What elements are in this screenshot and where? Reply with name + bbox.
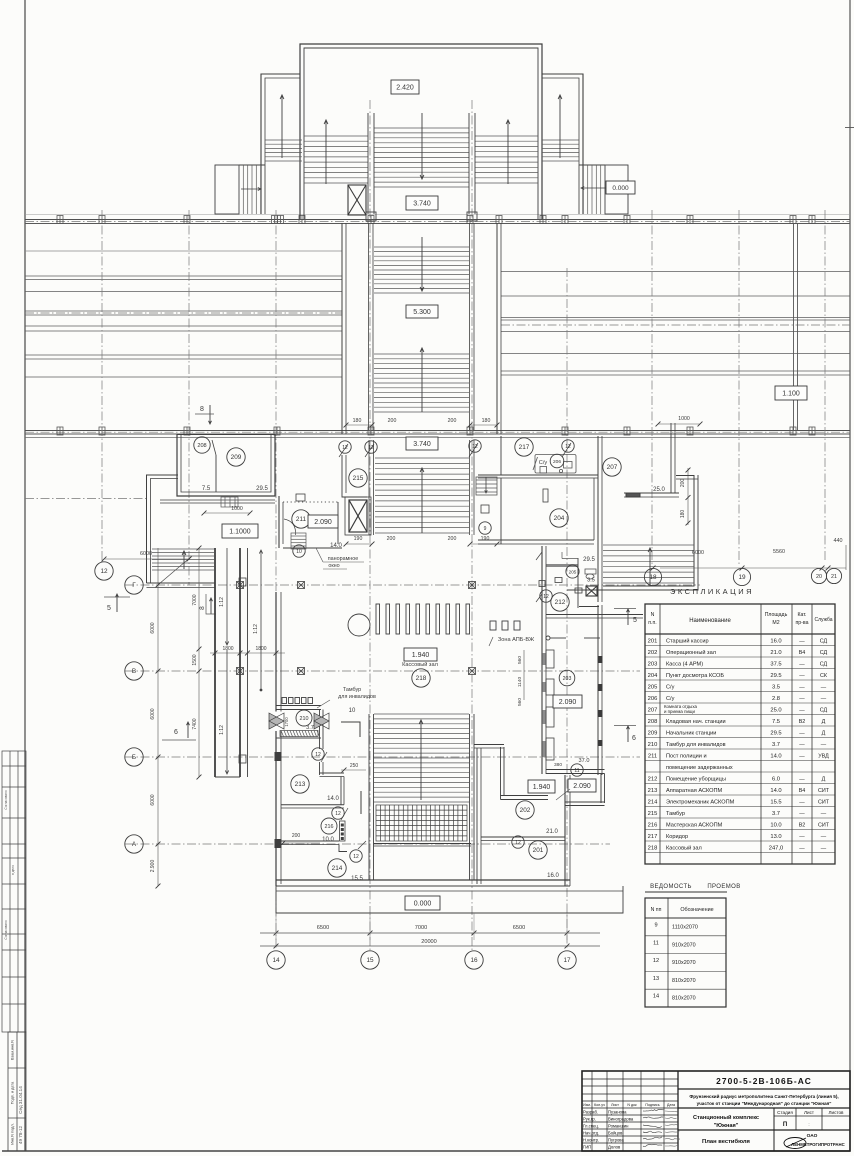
svg-text:Электромеханик АСКОПМ: Электромеханик АСКОПМ — [666, 800, 735, 806]
svg-text:3.5: 3.5 — [587, 578, 595, 584]
svg-text:6500: 6500 — [317, 925, 329, 931]
svg-text:2.090: 2.090 — [314, 519, 332, 526]
ramp center arrows down — [225, 548, 228, 645]
right wing stair — [542, 140, 579, 161]
svg-text:Кассовый зал: Кассовый зал — [666, 845, 702, 852]
svg-text:29.5: 29.5 — [583, 557, 595, 563]
svg-text:п.п.: п.п. — [648, 620, 657, 626]
svg-text:29.5: 29.5 — [256, 486, 268, 492]
escalator shaft inner rails — [369, 223, 475, 430]
svg-text:0.000: 0.000 — [612, 185, 629, 192]
svg-text:217: 217 — [648, 834, 658, 840]
svg-text:12: 12 — [100, 568, 108, 575]
svg-text:1.100: 1.100 — [782, 391, 800, 398]
svg-text:210: 210 — [648, 742, 658, 748]
svg-text:УВД: УВД — [818, 754, 829, 760]
svg-text:ОАО: ОАО — [807, 1133, 818, 1139]
door swing arc room 211 — [284, 519, 296, 535]
svg-text:6000: 6000 — [150, 794, 156, 805]
stage headers — [777, 1110, 844, 1128]
wall below 209 — [160, 500, 275, 503]
svg-text:180: 180 — [353, 418, 362, 424]
upper pavilion right wing wall — [542, 74, 583, 214]
svg-text:Н.контр.: Н.контр. — [583, 1138, 599, 1143]
svg-text:9: 9 — [654, 923, 657, 929]
axis circle 19 — [733, 568, 750, 585]
svg-text:5: 5 — [633, 617, 637, 624]
axis circle 17 — [558, 951, 576, 969]
svg-text:—: — — [821, 846, 827, 852]
svg-text:200: 200 — [292, 833, 301, 839]
label panoramic window — [316, 548, 364, 569]
level label 2.090 porch — [568, 779, 596, 792]
svg-text:Старший кассир: Старший кассир — [666, 638, 709, 645]
axis circle 20 — [811, 568, 826, 583]
svg-text:49 78-12: 49 78-12 — [18, 1125, 23, 1144]
svg-text:М2: М2 — [772, 620, 779, 626]
label С/у 206 — [539, 454, 564, 468]
svg-text:205: 205 — [569, 570, 577, 575]
svg-text:—: — — [821, 696, 827, 702]
vertical grid axis lines — [102, 100, 825, 950]
svg-text:8: 8 — [199, 606, 206, 610]
small stair room 211 — [291, 533, 306, 549]
svg-text:6: 6 — [632, 735, 636, 742]
room 215 tambour walls — [342, 455, 367, 497]
dimension 380 37.0 — [554, 758, 589, 768]
svg-text:37.5: 37.5 — [770, 662, 781, 668]
svg-text:—: — — [799, 834, 805, 840]
stair flight 5.300 down arrow — [420, 237, 424, 291]
svg-text:213: 213 — [648, 788, 658, 794]
svg-text:Тамбур: Тамбур — [666, 811, 685, 817]
svg-text:—: — — [799, 754, 805, 760]
svg-text:Аппаратная АСКОПМ: Аппаратная АСКОПМ — [666, 788, 723, 794]
svg-text:Романшин: Романшин — [608, 1124, 629, 1129]
level label 5.300 — [406, 305, 438, 318]
svg-text:201: 201 — [648, 639, 658, 645]
room tag 201 — [529, 841, 547, 859]
svg-text:204: 204 — [554, 515, 565, 522]
svg-text:190: 190 — [354, 536, 363, 542]
wc fixtures 205 206 — [533, 455, 576, 474]
room tag 213 — [291, 775, 309, 793]
axis circle В — [125, 662, 143, 680]
small stair right of shaft down — [476, 477, 497, 495]
signature squiggles — [643, 1109, 664, 1111]
svg-text:ЭКСПЛИКАЦИЯ: ЭКСПЛИКАЦИЯ — [670, 587, 754, 596]
svg-text:18: 18 — [649, 574, 657, 581]
svg-text:810x2070: 810x2070 — [672, 978, 696, 984]
svg-text:3.7: 3.7 — [772, 742, 780, 748]
left entrance stair treads — [239, 165, 265, 214]
svg-text:205: 205 — [648, 685, 658, 691]
svg-text:N пп: N пп — [651, 907, 662, 913]
sheet frame left border — [24, 0, 26, 1151]
section marker 5 right — [614, 609, 637, 626]
svg-text:Изм.: Изм. — [583, 1103, 591, 1107]
axis circle Г — [125, 576, 143, 594]
svg-text:А: А — [132, 841, 137, 848]
svg-text:440: 440 — [834, 538, 843, 544]
svg-text:1.940: 1.940 — [533, 784, 551, 791]
svg-text:—: — — [799, 662, 805, 668]
axis circle Б — [125, 748, 143, 766]
svg-text:Пузанова: Пузанова — [608, 1110, 627, 1115]
svg-text:21.0: 21.0 — [546, 829, 558, 835]
svg-text:Пункт досмотра КСОБ: Пункт досмотра КСОБ — [666, 673, 724, 679]
svg-text:Г: Г — [132, 582, 136, 589]
stamp handwriting — [18, 1086, 23, 1144]
entrance door fans — [269, 713, 329, 729]
svg-text:Д: Д — [822, 719, 826, 725]
svg-text:810x2070: 810x2070 — [672, 996, 696, 1002]
dimension 250 room 213 — [341, 763, 366, 772]
level label 1.1000 — [222, 524, 258, 538]
svg-text:204: 204 — [648, 673, 658, 679]
svg-text:3.740: 3.740 — [413, 201, 431, 208]
svg-text:380: 380 — [554, 762, 562, 768]
door tag 12 room 213 upper — [312, 748, 327, 762]
svg-text:Тамбур: Тамбур — [343, 687, 361, 693]
svg-text:6500: 6500 — [513, 925, 525, 931]
svg-text:10: 10 — [349, 708, 356, 714]
door opening gap in west wall — [274, 712, 283, 732]
svg-text:Фрунзенский радиус метрополите: Фрунзенский радиус метрополитена Санкт-П… — [689, 1093, 838, 1099]
svg-text:5.300: 5.300 — [413, 309, 431, 316]
door mat hatch — [276, 731, 321, 739]
svg-text:218: 218 — [416, 675, 427, 682]
svg-text:панорамное: панорамное — [328, 556, 359, 562]
wc 205 dimension 29.5 — [562, 552, 595, 563]
svg-text:Б: Б — [132, 754, 136, 761]
svg-text:Согласовано: Согласовано — [4, 790, 8, 809]
svg-text:Подп. и дата: Подп. и дата — [11, 1081, 15, 1104]
svg-text:13.0: 13.0 — [770, 834, 781, 840]
svg-text:для инвалидов: для инвалидов — [338, 694, 376, 700]
svg-text:В2: В2 — [799, 823, 806, 829]
svg-text:Кат.: Кат. — [797, 612, 806, 618]
corner bracket lower stair — [360, 791, 362, 814]
svg-text:"Южная": "Южная" — [714, 1123, 739, 1129]
svg-text:Согласовано: Согласовано — [4, 920, 8, 939]
right entrance stair treads — [579, 165, 605, 214]
svg-text:6000: 6000 — [150, 622, 156, 633]
small door squares near 212 — [539, 578, 582, 594]
room tag 212 — [551, 593, 569, 611]
svg-text:3.7: 3.7 — [306, 725, 314, 731]
room tag 217 — [515, 438, 533, 456]
svg-text:—: — — [799, 685, 805, 691]
svg-text:Виноградова: Виноградова — [608, 1117, 634, 1122]
level label 2.420 — [391, 80, 419, 94]
svg-text:ЛЕНМЕТРОГИПРОТРАНС: ЛЕНМЕТРОГИПРОТРАНС — [791, 1142, 844, 1147]
left wing stair — [265, 140, 302, 161]
svg-text:215: 215 — [648, 811, 658, 817]
door leader 11 — [556, 789, 570, 800]
svg-text:214: 214 — [648, 800, 658, 806]
svg-text:9: 9 — [484, 526, 487, 532]
svg-text:2.900: 2.900 — [150, 860, 156, 873]
svg-text:В4: В4 — [799, 650, 806, 656]
bottom dimension line — [260, 913, 600, 948]
svg-text:—: — — [799, 673, 805, 679]
svg-text:10.0: 10.0 — [322, 837, 334, 843]
level label 3.740 upper — [406, 196, 438, 210]
room tag 208 — [194, 437, 210, 453]
room tag 210 — [296, 710, 312, 726]
svg-text:Рук.гр.: Рук.гр. — [583, 1117, 596, 1122]
svg-text:Коридор: Коридор — [666, 834, 688, 840]
svg-text:1.1000: 1.1000 — [229, 529, 251, 536]
axis circle 15 — [361, 951, 379, 969]
svg-text:1:12: 1:12 — [219, 725, 225, 735]
svg-text:29.5: 29.5 — [770, 673, 781, 679]
svg-text:217: 217 — [519, 444, 530, 451]
hall stair down treads — [374, 714, 469, 802]
platform edge upper (double line with axis) — [25, 215, 850, 224]
eksplikaciya table grid — [645, 604, 835, 864]
svg-text:10.0: 10.0 — [770, 823, 781, 829]
svg-text:560: 560 — [517, 656, 523, 664]
room 216 walls — [281, 841, 347, 852]
svg-text:СД: СД — [820, 650, 828, 656]
svg-text:СИТ: СИТ — [818, 823, 830, 829]
svg-text:—: — — [799, 731, 805, 737]
svg-text:СИТ: СИТ — [818, 800, 830, 806]
svg-text:203: 203 — [648, 662, 658, 668]
svg-text:14.0: 14.0 — [770, 788, 781, 794]
svg-text:206: 206 — [648, 696, 658, 702]
svg-text:ГИП: ГИП — [583, 1145, 591, 1150]
svg-text:214: 214 — [332, 865, 343, 872]
svg-text:12: 12 — [335, 811, 341, 817]
svg-text:Бойцов: Бойцов — [608, 1131, 623, 1136]
svg-text:202: 202 — [648, 650, 658, 656]
left outdoor stair arrow — [182, 551, 186, 569]
svg-text:209: 209 — [648, 731, 658, 737]
signature header texts — [583, 1103, 675, 1107]
left stair court walls — [147, 475, 216, 588]
svg-text::: : — [808, 1122, 809, 1127]
signature rows texts — [583, 1110, 634, 1150]
svg-text:Площадь: Площадь — [765, 612, 788, 618]
right entrance landing box — [579, 165, 628, 214]
svg-text:Служба: Служба — [814, 617, 832, 623]
axis circle 21 — [826, 568, 841, 583]
svg-text:в дело: в дело — [11, 865, 15, 875]
section marker 6 right — [614, 726, 636, 743]
dimension line right 6000 5560 440 — [651, 538, 846, 570]
level label 0.000 bottom — [405, 896, 440, 910]
left wing stair arrow up — [280, 95, 284, 158]
vedomost proemov title — [645, 884, 741, 892]
label Тамбур для инвалидов — [317, 687, 376, 708]
svg-text:5: 5 — [107, 605, 111, 612]
eksplikaciya header texts — [648, 612, 832, 626]
room tag 218 — [412, 669, 430, 687]
svg-text:218: 218 — [648, 846, 658, 852]
svg-text:1800: 1800 — [222, 646, 233, 652]
kassa cell dimension 560 1140 560 — [517, 650, 524, 706]
room tag 207 — [603, 458, 621, 476]
svg-text:С/у: С/у — [539, 460, 548, 466]
room 211 walls — [279, 496, 342, 548]
kassa wall with cells — [542, 546, 546, 774]
svg-text:6000: 6000 — [150, 708, 156, 719]
shaft lower dimension texts — [344, 536, 500, 546]
svg-text:19: 19 — [738, 574, 746, 581]
svg-text:N док: N док — [627, 1103, 637, 1107]
stair flight to hall up arrow — [420, 468, 424, 533]
door mark 12 right of shaft — [469, 440, 481, 457]
svg-text:1000: 1000 — [231, 506, 243, 512]
svg-text:20000: 20000 — [421, 939, 437, 945]
svg-text:17: 17 — [563, 957, 571, 964]
svg-text:Листов: Листов — [829, 1110, 844, 1115]
door tag 10 — [293, 545, 305, 557]
svg-text:—: — — [821, 685, 827, 691]
svg-text:15.5: 15.5 — [351, 876, 363, 882]
svg-text:16.0: 16.0 — [770, 639, 781, 645]
ramp wall column squares — [239, 578, 246, 763]
svg-text:Станционный комплекс: Станционный комплекс — [693, 1114, 759, 1121]
svg-text:П: П — [783, 1122, 787, 1128]
left entrance landing box — [215, 165, 265, 214]
partition room 208 — [215, 455, 217, 492]
svg-text:202: 202 — [520, 807, 531, 814]
left outdoor stair break line — [159, 556, 192, 584]
svg-text:и приема пищи: и приема пищи — [664, 709, 696, 714]
porch outline right — [501, 747, 605, 806]
room tag 203 — [559, 670, 575, 686]
zone squares АПБ — [490, 621, 520, 630]
svg-text:7.5: 7.5 — [202, 486, 211, 492]
svg-text:СД: СД — [820, 662, 828, 668]
building bottom wall — [276, 880, 570, 886]
room tag 214 — [328, 859, 346, 877]
svg-text:37.0: 37.0 — [579, 758, 590, 764]
svg-text:1:12: 1:12 — [253, 624, 259, 634]
svg-text:25.0: 25.0 — [770, 708, 781, 714]
dimension 6000 left top — [102, 551, 192, 561]
svg-text:12: 12 — [353, 854, 359, 860]
svg-text:—: — — [821, 742, 827, 748]
svg-text:5560: 5560 — [773, 549, 785, 555]
hall left outer wall — [276, 592, 281, 886]
kassa cells — [543, 650, 554, 760]
svg-text:Операционный зал: Операционный зал — [666, 649, 716, 656]
turnstile row — [376, 604, 470, 634]
svg-text:208: 208 — [648, 719, 658, 725]
level label 0.000 with arrow — [581, 187, 610, 190]
svg-text:200: 200 — [387, 536, 396, 542]
svg-text:помещение задержанных: помещение задержанных — [666, 765, 733, 771]
elevator shaft upper (x-box) — [348, 185, 366, 215]
svg-text:201: 201 — [533, 847, 544, 854]
svg-text:6000: 6000 — [140, 551, 152, 557]
svg-text:212: 212 — [648, 777, 658, 783]
svg-text:2700-5-2В-106Б-АС: 2700-5-2В-106Б-АС — [716, 1076, 812, 1086]
svg-text:Зона АПБ-ВЖ: Зона АПБ-ВЖ — [498, 637, 535, 643]
svg-text:Разраб.: Разраб. — [583, 1110, 598, 1115]
room tag 216 — [321, 818, 337, 834]
platform edge lower (double line with axis) — [25, 431, 850, 438]
svg-text:21: 21 — [831, 574, 837, 580]
svg-text:Дата: Дата — [667, 1103, 675, 1107]
svg-text:210: 210 — [300, 716, 309, 722]
hall right wall with windows — [598, 605, 602, 775]
ramp dimension 1800 1800 — [210, 646, 285, 655]
svg-text:СИТ: СИТ — [818, 788, 830, 794]
dimension 200 room 216 — [281, 833, 320, 845]
rooms 208 209 outer walls — [177, 434, 275, 496]
stair flight to hall treads — [375, 458, 469, 533]
svg-text:3.5: 3.5 — [772, 685, 780, 691]
svg-text:Инв.N подл.: Инв.N подл. — [11, 1123, 15, 1144]
elevator shaft lower x-box — [349, 500, 367, 532]
apron outline — [276, 886, 623, 913]
small vent xbox — [586, 586, 597, 596]
hall stair up arrow — [419, 720, 423, 800]
left margin table rotated texts — [4, 790, 15, 939]
pedestrian ramp walls 1:12 — [215, 548, 248, 777]
svg-text:211: 211 — [296, 516, 307, 523]
svg-text:Кладовая нач. станции: Кладовая нач. станции — [666, 719, 726, 725]
logo OAO Lenmetrogiprotrans — [784, 1133, 845, 1149]
stair flight middle up arrow — [420, 348, 424, 412]
svg-text:1700: 1700 — [284, 717, 289, 727]
upper side stair treads right — [475, 136, 538, 183]
svg-text:3.740: 3.740 — [413, 441, 431, 448]
room 207 walls — [624, 423, 679, 497]
right wing wall — [567, 475, 698, 590]
vedomost texts — [651, 907, 714, 1002]
room tag 211 — [292, 510, 310, 528]
svg-text:N: N — [651, 612, 655, 618]
left outdoor stair treads — [152, 549, 214, 570]
svg-text:2.8: 2.8 — [772, 696, 780, 702]
svg-text:—: — — [821, 834, 827, 840]
escalator shaft walls — [342, 223, 501, 434]
wc fixture 205 — [585, 569, 596, 579]
svg-text:8: 8 — [200, 406, 204, 413]
svg-text:СК: СК — [820, 673, 828, 679]
svg-text:1.940: 1.940 — [412, 652, 430, 659]
door leaf marks kassa wall — [536, 552, 542, 602]
stair flight middle treads — [374, 354, 469, 412]
svg-text:окно: окно — [328, 563, 339, 569]
cabinet marks room 216 — [340, 821, 346, 841]
panoramic window dotted line — [283, 501, 338, 503]
svg-text:6000: 6000 — [692, 550, 704, 556]
dimension 1000 top right — [656, 416, 703, 426]
svg-text:—: — — [799, 696, 805, 702]
section marker 8 bottom — [199, 594, 216, 614]
svg-text:ВЕДОМОСТЬ: ВЕДОМОСТЬ — [650, 884, 692, 890]
sheet frame bottom border — [2, 1150, 850, 1152]
svg-text:16: 16 — [470, 957, 478, 964]
svg-text:11: 11 — [574, 768, 579, 774]
svg-text:250: 250 — [350, 763, 359, 769]
svg-text:2.090: 2.090 — [573, 783, 591, 790]
svg-text:Д: Д — [822, 777, 826, 783]
wc 205 cluster walls — [546, 558, 599, 608]
svg-text:1500: 1500 — [192, 654, 198, 665]
small stair below 209 — [221, 497, 238, 507]
svg-text:В: В — [132, 668, 136, 675]
column marks on platform edges — [57, 216, 815, 436]
